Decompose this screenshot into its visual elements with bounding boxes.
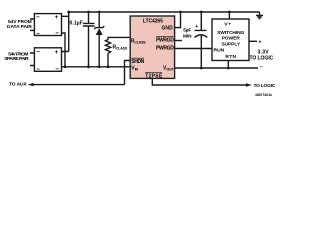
svg-text:+: + xyxy=(195,24,198,30)
svg-text:~: ~ xyxy=(36,67,40,74)
svg-text:+: + xyxy=(55,14,59,21)
svg-text:RTN: RTN xyxy=(225,54,236,60)
svg-text:SHDN: SHDN xyxy=(131,59,144,65)
svg-text:SPARE PAIR: SPARE PAIR xyxy=(4,56,29,62)
svg-text:LTC4265: LTC4265 xyxy=(143,19,163,25)
svg-text:CLASS: CLASS xyxy=(116,46,128,50)
svg-text:RUN: RUN xyxy=(214,48,225,54)
svg-text:TO LOGIC: TO LOGIC xyxy=(250,55,274,61)
svg-text:TO LOGIC: TO LOGIC xyxy=(254,83,276,89)
svg-text:5µF: 5µF xyxy=(183,27,191,33)
svg-text:CLASS: CLASS xyxy=(134,40,146,44)
svg-text:SWITCHING: SWITCHING xyxy=(217,30,244,36)
svg-text:4265 TA01a: 4265 TA01a xyxy=(255,93,272,97)
svg-text:GND: GND xyxy=(162,26,174,32)
svg-text:~: ~ xyxy=(36,49,40,56)
svg-text:PWRGD: PWRGD xyxy=(156,46,174,52)
svg-text:T2PSE: T2PSE xyxy=(145,73,163,79)
svg-text:POWER: POWER xyxy=(222,36,241,42)
svg-text:−: − xyxy=(55,66,59,73)
svg-text:−: − xyxy=(260,64,263,70)
svg-text:DATA PAIR: DATA PAIR xyxy=(7,24,32,30)
svg-text:−: − xyxy=(55,30,59,37)
svg-text:+: + xyxy=(259,39,262,45)
svg-text:TO AUX: TO AUX xyxy=(9,81,27,87)
svg-text:~: ~ xyxy=(36,31,40,38)
svg-text:−: − xyxy=(36,14,40,21)
svg-text:OUT: OUT xyxy=(166,68,174,72)
svg-text:SUPPLY: SUPPLY xyxy=(221,42,240,48)
svg-text:MIN: MIN xyxy=(183,33,192,39)
svg-text:+: + xyxy=(55,49,59,56)
svg-text:PWRGD: PWRGD xyxy=(156,38,174,44)
svg-text:V+: V+ xyxy=(224,21,231,27)
svg-text:0.1µF: 0.1µF xyxy=(70,20,83,26)
